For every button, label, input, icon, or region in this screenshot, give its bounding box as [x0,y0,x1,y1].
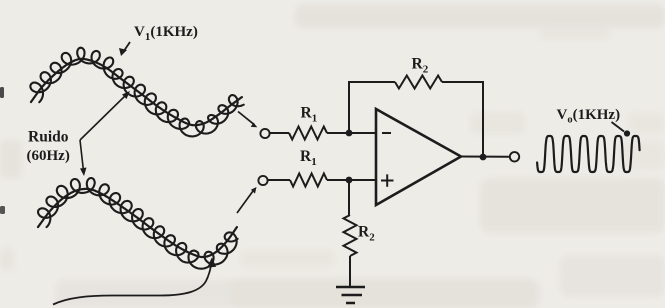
wire non-inverting node down to R2 [348,180,350,215]
wire R2 to ground [349,256,351,287]
arrow from top waveform to upper input terminal [238,112,255,125]
feedback wire right vertical [442,82,483,157]
upper input terminal [260,129,269,138]
wire lower terminal to R1 [268,179,290,181]
op-amp non-inverting input plus sign [381,174,394,186]
arrow from bottom waveform to lower input terminal [237,191,253,213]
noisy input waveform top: 60Hz base sine [31,59,242,125]
feedback wire left vertical [349,82,395,133]
resistor R2 feedback [395,76,442,89]
output waveform Vo 1KHz [537,136,640,172]
lower input terminal [258,176,267,185]
arrow from Ruido to top waveform [80,94,127,140]
resistor R1 lower [290,174,327,187]
svg-text:Vo(1KHz): Vo(1KHz) [557,107,621,126]
junction node at non-inverting input [346,177,353,184]
curved arrow pointing to bottom waveform trough [53,266,211,305]
resistor R2 to ground [344,215,357,256]
junction node at output [480,154,487,161]
wire upper terminal to R1 [270,132,289,134]
ground symbol [336,287,365,303]
resistor R1 upper [289,127,327,140]
op-amp inverting input minus sign [382,132,391,134]
output wire [461,156,510,158]
junction node at inverting input [346,130,353,137]
arrow from Ruido to bottom waveform [80,140,84,171]
op-amp U1 triangle [376,109,461,205]
wire lower R1 to op-amp non-inverting input [327,179,376,181]
svg-text:Ruido: Ruido [28,129,69,146]
arrow from Vo label to output waveform [612,122,625,132]
svg-text:(60Hz): (60Hz) [27,148,70,164]
output terminal [510,152,519,161]
wire upper R1 to op-amp inverting input [327,132,376,134]
noisy input waveform bottom: 60Hz base sine [38,189,237,257]
arrow from V1 label to top waveform [123,42,131,53]
